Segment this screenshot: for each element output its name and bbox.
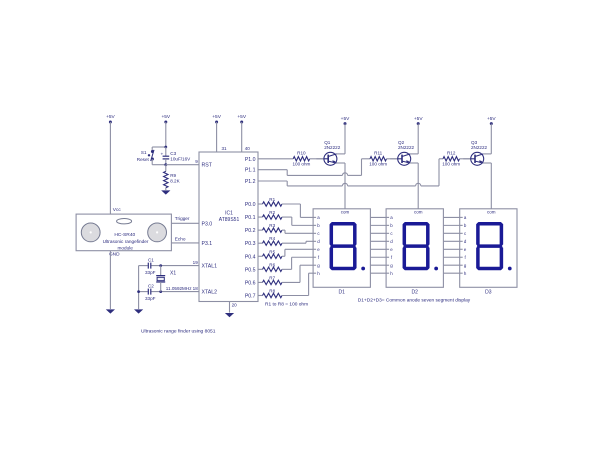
- wire (R8 to display pin h): [282, 294, 309, 296]
- svg-text:P1.0: P1.0: [245, 157, 256, 163]
- svg-text:S1: S1: [141, 150, 147, 155]
- wire (Trigger to P3.0): [171, 222, 199, 224]
- svg-text:Ultrasonic rangefinder: Ultrasonic rangefinder: [103, 239, 149, 244]
- wire (Q2 emitter to display): [410, 162, 418, 164]
- wire (R2 to display pin b): [282, 216, 292, 218]
- svg-text:R3: R3: [269, 223, 275, 228]
- resistor R9: [165, 165, 167, 172]
- ground (module): [106, 309, 115, 313]
- wire (R3 to display pin c): [282, 229, 285, 231]
- wire (R1 to display pin a): [282, 203, 300, 205]
- svg-text:10uF/16V: 10uF/16V: [170, 156, 191, 161]
- svg-text:+5V: +5V: [212, 114, 221, 120]
- ground (crystal): [134, 309, 143, 313]
- svg-text:2N2222: 2N2222: [471, 145, 488, 150]
- wire (R7 to display pin g): [282, 281, 300, 283]
- capacitor C2: [147, 289, 149, 295]
- resistor R11: [362, 158, 371, 160]
- svg-text:R5: R5: [269, 249, 275, 254]
- svg-text:100 ohm: 100 ohm: [442, 161, 460, 166]
- svg-text:R6: R6: [269, 262, 275, 267]
- svg-text:R12: R12: [447, 151, 456, 156]
- svg-text:P0.0: P0.0: [245, 202, 256, 208]
- wire (base to Q3): [463, 158, 471, 160]
- svg-text:XTAL2: XTAL2: [202, 290, 218, 296]
- wire (segment bus D1-D2): [370, 216, 386, 218]
- svg-text:+: +: [160, 153, 163, 158]
- decimal point D1: [361, 267, 365, 271]
- display D1 body: [313, 209, 370, 287]
- resistor R12: [439, 158, 443, 160]
- module oval: [117, 219, 132, 224]
- decimal point D2: [434, 267, 438, 271]
- wire (XTAL2 net): [139, 291, 148, 293]
- svg-text:XTAL1: XTAL1: [202, 264, 218, 270]
- resistor R2: [258, 216, 263, 218]
- svg-text:R10: R10: [297, 151, 306, 156]
- wire (module GND): [109, 251, 111, 309]
- svg-text:33pF: 33pF: [145, 296, 156, 301]
- decimal point D3: [508, 267, 512, 271]
- svg-text:+5V: +5V: [106, 114, 115, 120]
- svg-text:P3.1: P3.1: [202, 241, 213, 247]
- svg-text:D3: D3: [485, 290, 492, 296]
- svg-text:HC-SR40: HC-SR40: [114, 232, 135, 238]
- crystal X1: [160, 266, 162, 276]
- svg-text:Ultrasonic range finder using: Ultrasonic range finder using 8051: [141, 328, 216, 334]
- svg-text:11.0592MHz: 11.0592MHz: [166, 286, 192, 291]
- svg-text:P0.1: P0.1: [245, 215, 256, 221]
- svg-text:P1.1: P1.1: [245, 168, 256, 174]
- svg-text:Echo: Echo: [175, 236, 186, 241]
- svg-text:40: 40: [245, 146, 251, 151]
- wire (base to Q2): [390, 158, 398, 160]
- wire (junction to RST): [166, 164, 199, 166]
- seven segment digit D3: [477, 222, 503, 226]
- svg-text:R9: R9: [170, 173, 176, 178]
- wire (Echo to P3.1): [171, 242, 199, 244]
- wire (P1.1 route): [258, 169, 287, 171]
- ground (IC pin 20): [225, 313, 234, 317]
- wire (P1.2 route): [258, 180, 287, 182]
- svg-text:Q3: Q3: [471, 140, 478, 145]
- svg-text:19: 19: [193, 260, 199, 265]
- svg-text:D1: D1: [339, 290, 346, 296]
- svg-text:C1: C1: [148, 258, 154, 263]
- display D2 pin stubs: [386, 216, 389, 218]
- svg-text:P3.0: P3.0: [202, 221, 213, 227]
- display D3 pin stubs: [460, 216, 463, 218]
- node (XTAL2 junction): [159, 290, 162, 293]
- seven segment digit D2: [403, 222, 429, 226]
- wire (Q3 emitter to display): [483, 162, 491, 164]
- switch S1: [151, 150, 154, 153]
- svg-text:33pF: 33pF: [145, 270, 156, 275]
- svg-text:D1+D2+D3= Common anode seven s: D1+D2+D3= Common anode seven segment dis…: [358, 297, 471, 303]
- svg-text:P0.2: P0.2: [245, 228, 256, 234]
- svg-text:18: 18: [193, 286, 199, 291]
- resistor R4: [258, 242, 263, 244]
- transducer right: [148, 223, 167, 242]
- svg-text:Q1: Q1: [324, 140, 331, 145]
- resistor R6: [258, 268, 263, 270]
- svg-text:P0.6: P0.6: [245, 280, 256, 286]
- svg-text:8.2K: 8.2K: [170, 179, 180, 184]
- svg-text:R1: R1: [269, 197, 275, 202]
- svg-text:P1.2: P1.2: [245, 179, 256, 185]
- svg-text:R4: R4: [269, 236, 275, 241]
- svg-text:R7: R7: [269, 275, 275, 280]
- resistor R3: [258, 229, 263, 231]
- wire (segment bus D2-D3): [443, 216, 459, 218]
- svg-text:+5V: +5V: [487, 116, 496, 122]
- svg-text:R1 to R8 = 100 ohm: R1 to R8 = 100 ohm: [265, 301, 308, 307]
- wire (Q1 collector to +5V): [337, 153, 346, 155]
- svg-text:RST: RST: [202, 163, 213, 169]
- svg-text:C2: C2: [148, 283, 154, 288]
- svg-text:R8: R8: [269, 288, 275, 293]
- node (reset top junction): [164, 146, 167, 149]
- svg-text:31: 31: [222, 146, 228, 151]
- svg-text:com: com: [487, 210, 496, 215]
- resistor R5: [258, 255, 263, 257]
- svg-text:2N2222: 2N2222: [324, 145, 341, 150]
- pin 20 wire: [229, 302, 231, 313]
- svg-text:100 ohm: 100 ohm: [369, 161, 387, 166]
- svg-text:+5V: +5V: [237, 114, 246, 120]
- wire (Q2 collector to +5V): [410, 153, 418, 155]
- svg-text:P0.5: P0.5: [245, 267, 256, 273]
- svg-text:R11: R11: [374, 151, 383, 156]
- node (reset lower junction): [164, 163, 167, 166]
- svg-text:20: 20: [232, 302, 238, 307]
- display D3 body: [460, 209, 517, 287]
- svg-text:100 ohm: 100 ohm: [292, 161, 310, 166]
- wire (+5V junction to switch): [152, 146, 166, 148]
- svg-text:com: com: [341, 210, 350, 215]
- svg-text:R2: R2: [269, 210, 275, 215]
- transistor Q2: [398, 152, 411, 165]
- svg-text:+5V: +5V: [341, 116, 350, 122]
- capacitor C3: [165, 147, 167, 156]
- display D1 pin stubs: [313, 216, 316, 218]
- node (XTAL1 junction): [159, 264, 162, 267]
- seven segment digit D1: [330, 222, 356, 226]
- wire (R6 to display pin f): [282, 268, 292, 270]
- svg-text:X1: X1: [170, 271, 176, 277]
- svg-text:com: com: [414, 210, 423, 215]
- wire (R4 to display pin d): [282, 242, 306, 244]
- svg-text:D2: D2: [412, 290, 419, 296]
- wire (switch to lower junction): [151, 159, 153, 165]
- wire (base to Q1): [316, 158, 324, 160]
- wire (crystal ground rail): [138, 266, 140, 309]
- svg-text:+5V: +5V: [414, 116, 423, 122]
- svg-text:P0.4: P0.4: [245, 254, 256, 260]
- svg-text:AT89S51: AT89S51: [219, 217, 240, 223]
- IC U1 AT89S51 body: [199, 152, 258, 302]
- resistor R1: [258, 203, 263, 205]
- svg-text:Reset: Reset: [137, 157, 150, 162]
- capacitor C1: [147, 263, 149, 269]
- module HC-SR04 body: [76, 214, 171, 251]
- svg-text:Q2: Q2: [398, 140, 405, 145]
- svg-text:module: module: [118, 246, 134, 251]
- display D2 body: [386, 209, 443, 287]
- wire (R5 to display pin e): [282, 255, 285, 257]
- svg-text:Trigger: Trigger: [175, 216, 190, 221]
- wire (Q1 emitter to display): [337, 162, 346, 164]
- ground (reset R9): [161, 190, 170, 194]
- transistor Q3: [471, 152, 484, 165]
- transistor Q1: [324, 152, 337, 165]
- svg-text:IC1: IC1: [225, 211, 233, 217]
- resistor R7: [258, 281, 263, 283]
- svg-text:+5V: +5V: [161, 114, 170, 120]
- wire (XTAL1 net): [139, 265, 148, 267]
- resistor R10: [258, 158, 293, 160]
- svg-text:Vcc: Vcc: [113, 207, 122, 213]
- node (C2 ground junction): [137, 290, 140, 293]
- svg-text:9: 9: [195, 159, 198, 164]
- svg-text:P0.7: P0.7: [245, 293, 256, 299]
- resistor R8: [258, 294, 263, 296]
- svg-text:2N2222: 2N2222: [398, 145, 415, 150]
- svg-text:P0.3: P0.3: [245, 241, 256, 247]
- wire (Q3 collector to +5V): [483, 153, 491, 155]
- transducer left: [81, 223, 100, 242]
